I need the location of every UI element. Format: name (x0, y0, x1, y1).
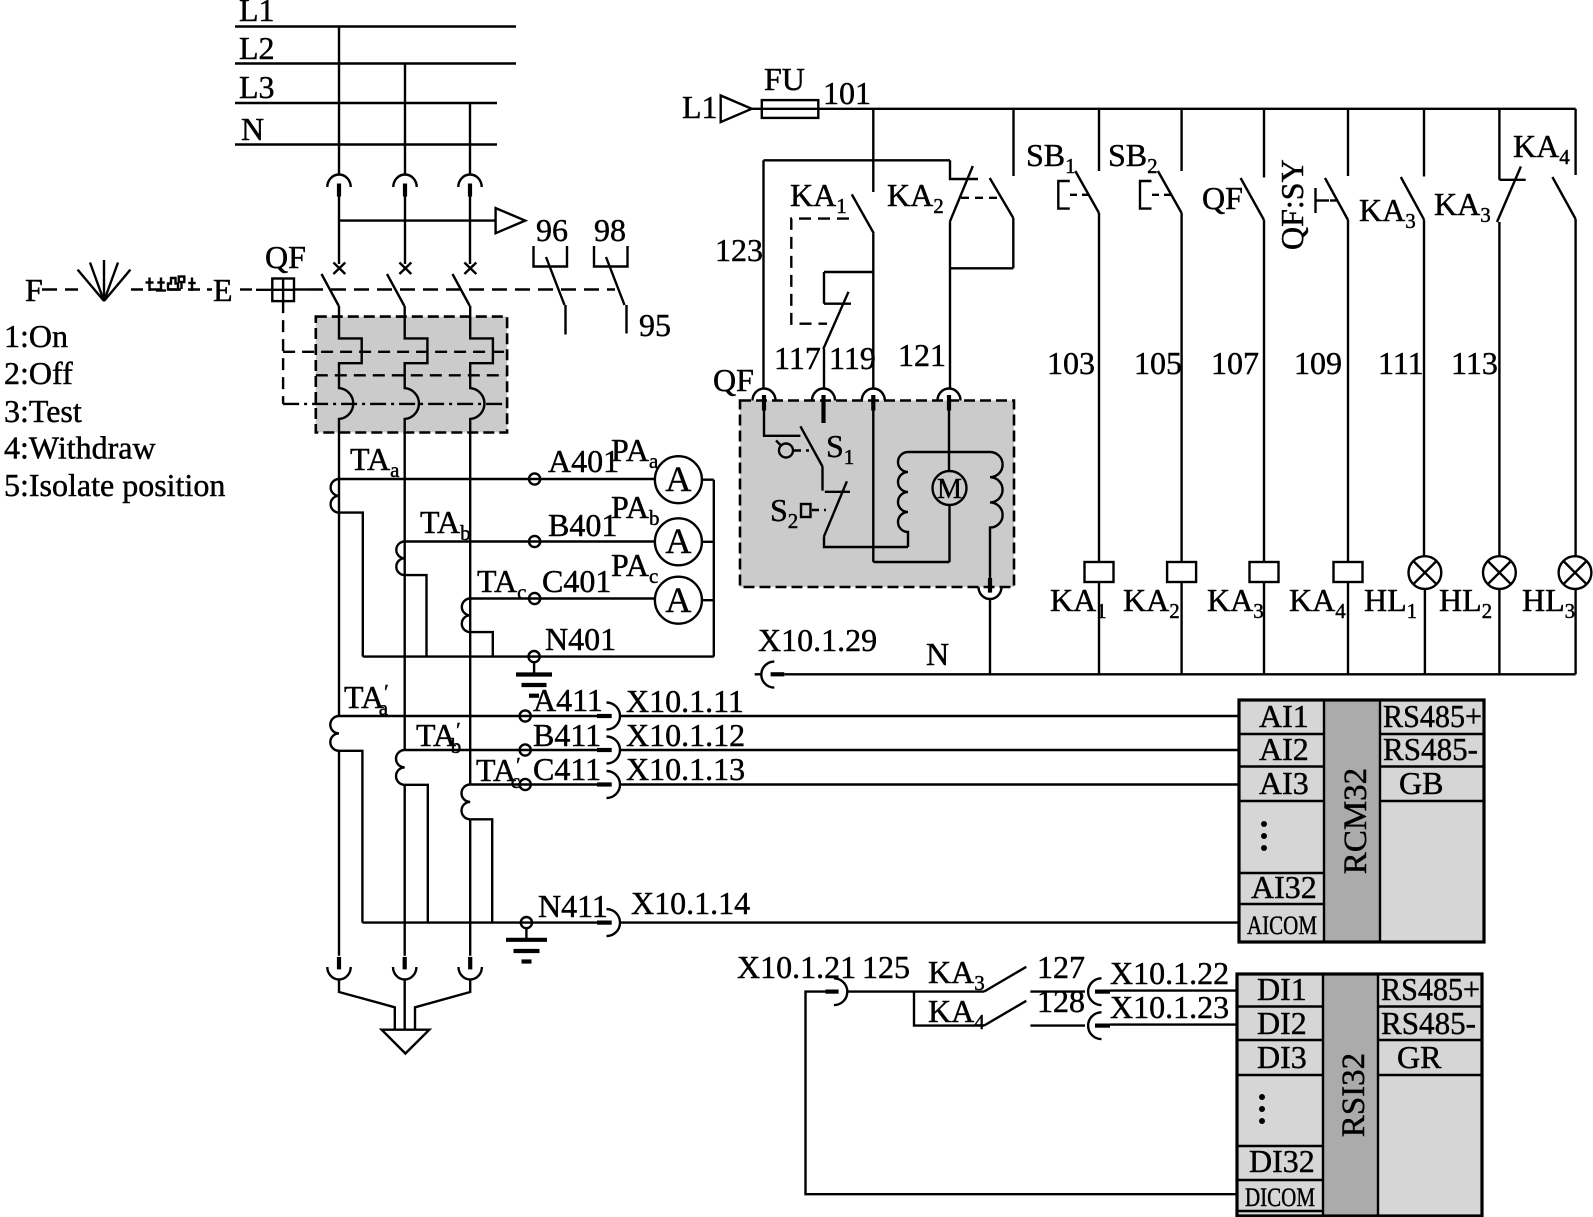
svg-text:128: 128 (1037, 983, 1085, 1019)
svg-text:RS485-: RS485- (1381, 1005, 1476, 1041)
svg-text:98: 98 (594, 212, 626, 248)
svg-text:QF: QF (1202, 180, 1243, 216)
svg-text:RCM32: RCM32 (1338, 768, 1374, 874)
svg-text:DI32: DI32 (1249, 1143, 1315, 1179)
svg-text:A: A (665, 580, 691, 620)
svg-text:123: 123 (715, 232, 763, 268)
svg-text:AI2: AI2 (1259, 731, 1309, 767)
svg-text:X10.1.13: X10.1.13 (626, 751, 745, 787)
svg-text:RS485-: RS485- (1383, 731, 1478, 767)
svg-text:121: 121 (898, 337, 946, 373)
svg-text:AICOM: AICOM (1247, 911, 1317, 940)
svg-text:TA′b: TA′b (416, 717, 461, 758)
svg-text:B411: B411 (533, 717, 601, 753)
svg-text:AI3: AI3 (1259, 765, 1309, 801)
svg-text:E: E (213, 272, 233, 308)
svg-text:2:Off: 2:Off (4, 355, 73, 391)
svg-text:AI1: AI1 (1259, 698, 1309, 734)
svg-text:X10.1.22: X10.1.22 (1110, 955, 1229, 991)
svg-text:M: M (937, 474, 962, 505)
svg-text:A: A (665, 459, 691, 499)
svg-text:QF:SY: QF:SY (1274, 159, 1310, 250)
svg-text:DI2: DI2 (1257, 1005, 1307, 1041)
svg-text:125: 125 (862, 949, 910, 985)
svg-text:N: N (926, 636, 949, 672)
svg-text:QF: QF (265, 239, 306, 275)
svg-text:107: 107 (1211, 345, 1259, 381)
svg-text:101: 101 (823, 75, 871, 111)
svg-text:113: 113 (1451, 345, 1498, 381)
svg-text:FU: FU (764, 61, 805, 97)
svg-text:RSI32: RSI32 (1336, 1053, 1372, 1137)
svg-text:N411: N411 (538, 888, 608, 924)
svg-text:L1: L1 (239, 0, 275, 28)
svg-text:QF: QF (713, 362, 754, 398)
svg-text:B401: B401 (548, 507, 617, 543)
svg-text:DI1: DI1 (1257, 971, 1307, 1007)
svg-text:RS485+: RS485+ (1381, 971, 1480, 1007)
svg-text:X10.1.12: X10.1.12 (626, 717, 745, 753)
svg-text:DICOM: DICOM (1245, 1183, 1315, 1212)
svg-text:GR: GR (1397, 1039, 1442, 1075)
svg-text:105: 105 (1134, 345, 1182, 381)
svg-text:X10.1.11: X10.1.11 (626, 683, 744, 719)
svg-text:TA′a: TA′a (344, 679, 389, 720)
svg-text:1:On: 1:On (4, 318, 68, 354)
svg-text:X10.1.29: X10.1.29 (758, 622, 877, 658)
svg-text:117: 117 (774, 340, 821, 376)
svg-text:103: 103 (1047, 345, 1095, 381)
svg-text:127: 127 (1037, 949, 1085, 985)
svg-text:119: 119 (829, 340, 876, 376)
svg-text:109: 109 (1294, 345, 1342, 381)
svg-text:GB: GB (1399, 765, 1443, 801)
svg-text:3:Test: 3:Test (4, 393, 82, 429)
svg-text:111: 111 (1378, 345, 1424, 381)
svg-text:F: F (25, 272, 43, 308)
svg-text:AI32: AI32 (1251, 869, 1317, 905)
svg-text:N: N (241, 111, 264, 147)
svg-text:A411: A411 (533, 682, 603, 718)
svg-text:TA′c: TA′c (476, 752, 521, 793)
svg-text:C411: C411 (533, 751, 601, 787)
svg-text:L3: L3 (239, 69, 275, 105)
svg-text:N401: N401 (545, 621, 616, 657)
svg-text:A401: A401 (548, 443, 619, 479)
svg-text:X10.1.14: X10.1.14 (631, 885, 750, 921)
svg-text:5:Isolate position: 5:Isolate position (4, 467, 225, 503)
svg-text:C401: C401 (542, 563, 611, 599)
svg-text:L2: L2 (239, 30, 275, 66)
svg-text:A: A (665, 521, 691, 561)
svg-text:95: 95 (639, 307, 671, 343)
svg-text:DI3: DI3 (1257, 1039, 1307, 1075)
svg-text:96: 96 (536, 212, 568, 248)
svg-text:4:Withdraw: 4:Withdraw (4, 430, 156, 466)
svg-text:X10.1.23: X10.1.23 (1110, 989, 1229, 1025)
svg-text:L1: L1 (682, 89, 718, 125)
svg-text:RS485+: RS485+ (1383, 698, 1482, 734)
